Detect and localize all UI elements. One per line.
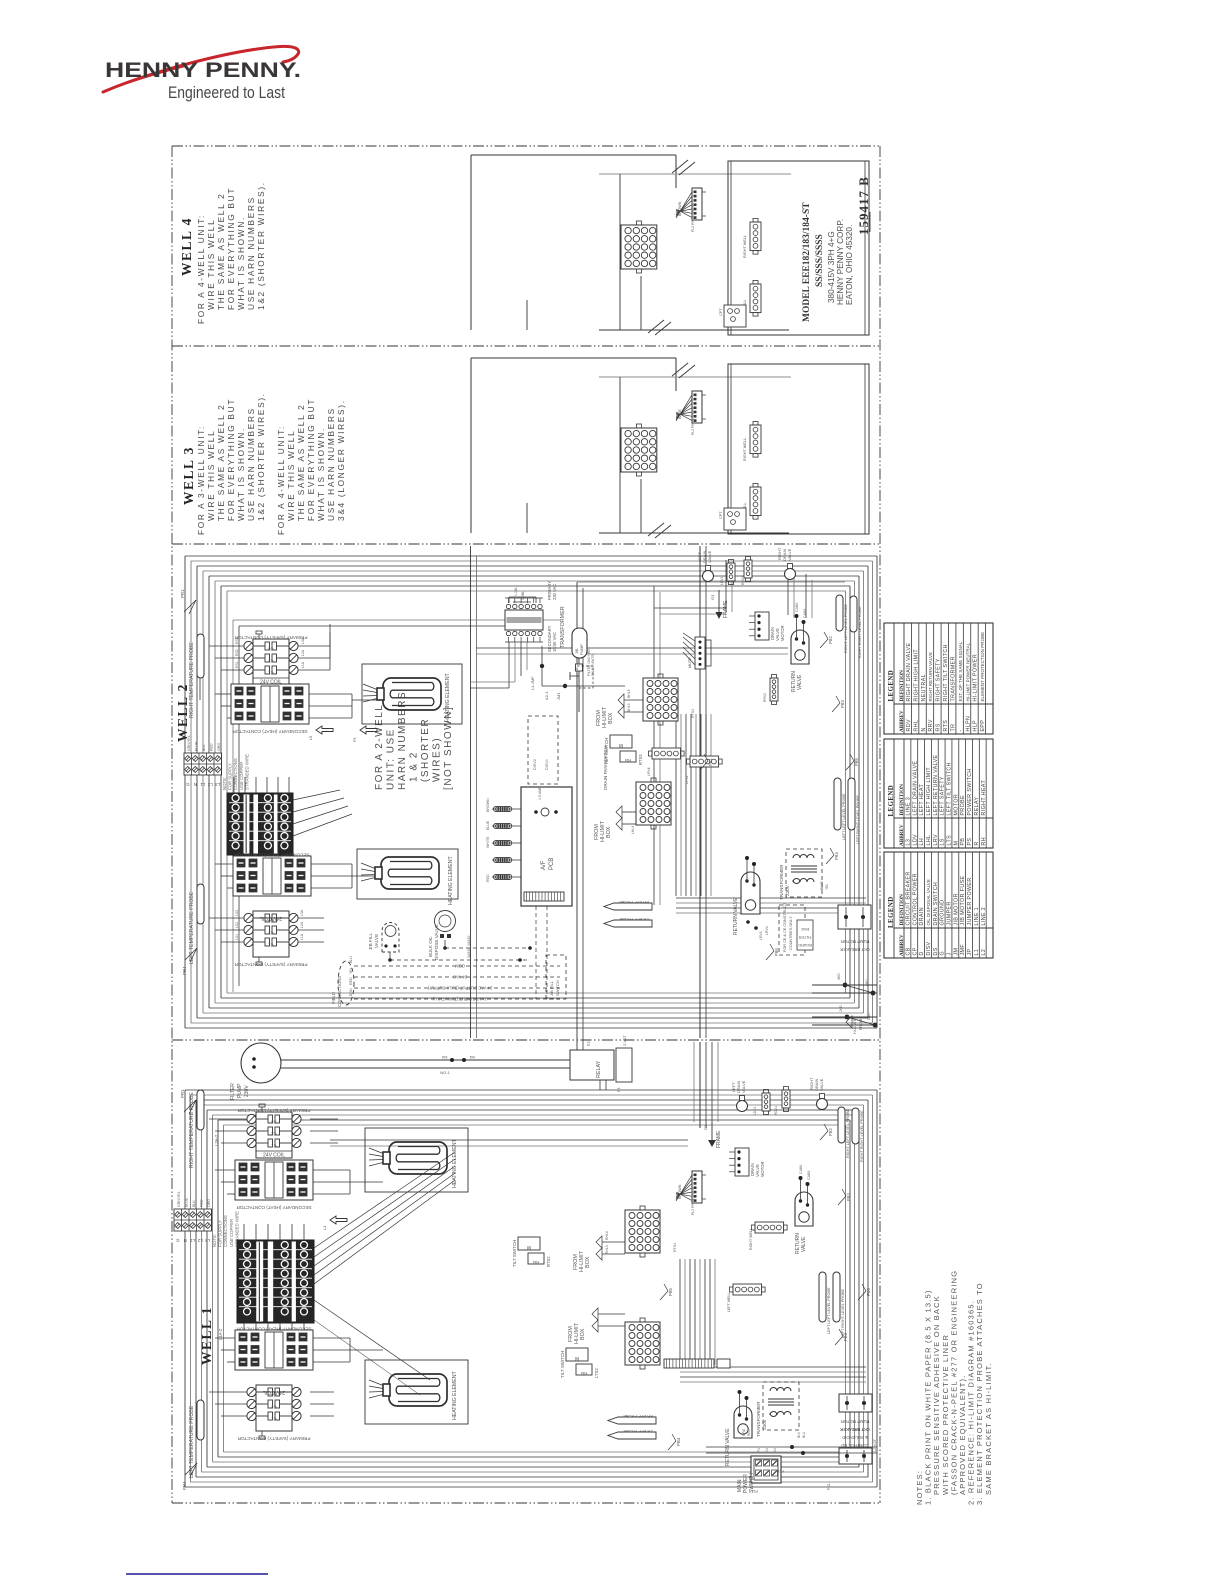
svg-text:L1A: L1A (300, 933, 304, 940)
svg-text:P86: P86 (866, 1288, 871, 1296)
svg-text:DISV1: DISV1 (545, 759, 549, 770)
probe PR1 right temperature probe WELL2 (197, 634, 204, 678)
svg-text:LHL4: LHL4 (631, 826, 635, 834)
svg-text:L3: L3 (215, 782, 220, 787)
svg-text:PL2 P/N:60.04.003: PL2 P/N:60.04.003 (691, 203, 695, 232)
heating element WELL2 left well (357, 849, 458, 899)
svg-text:DRAIN PAN SWITCH: DRAIN PAN SWITCH (603, 746, 608, 790)
svg-text:ABBREV: ABBREV (899, 710, 905, 732)
svg-text:6HD: 6HD (865, 979, 869, 986)
svg-text:CAB8: CAB8 (803, 609, 807, 618)
svg-text:COUNTRIES ONLY.: COUNTRIES ONLY. (789, 916, 793, 950)
svg-text:LH EPP PROBE: LH EPP PROBE (619, 917, 649, 922)
svg-text:GROUND: GROUND (940, 900, 946, 926)
pin connector right well WELL1 (755, 1222, 784, 1233)
svg-text:BLUE: BLUE (195, 741, 199, 751)
svg-text:FOR EVERYTHING BUT: FOR EVERYTHING BUT (226, 187, 236, 310)
svg-text:VALVE: VALVE (707, 550, 712, 563)
svg-text:1M: 1M (442, 1055, 448, 1060)
svg-text:N: N (921, 727, 927, 731)
svg-text:L3A: L3A (300, 909, 304, 916)
svg-text:RIGHT SAFETY: RIGHT SAFETY (936, 658, 942, 701)
svg-text:CONTROL POWER: CONTROL POWER (912, 873, 918, 925)
svg-text:SAME BRACKET AS HI-LIMIT.: SAME BRACKET AS HI-LIMIT. (984, 1362, 993, 1495)
contactor secondary heat WELL2 lower (233, 856, 311, 896)
svg-text:P82: P82 (828, 636, 833, 644)
svg-text:K1: K1 (765, 1448, 769, 1452)
svg-text:PS1: PS1 (827, 1483, 831, 1490)
svg-text:DISV: DISV (926, 941, 932, 955)
WELL2 ribbon elbow to right (676, 897, 866, 899)
svg-text:24 VAC INPUT (TANK FULL): 24 VAC INPUT (TANK FULL) (432, 997, 487, 1002)
RH EPP probe (604, 903, 652, 910)
svg-text:CPT: CPT (719, 308, 723, 316)
svg-text:TR: TR (950, 724, 956, 732)
svg-text:G: G (185, 782, 189, 787)
junction node A2-1 (540, 664, 544, 668)
svg-text:VALVE: VALVE (797, 674, 803, 690)
section divider WELL2/WELL1 (172, 1039, 880, 1041)
svg-text:FRAME: FRAME (723, 600, 729, 618)
svg-text:JUMPER: JUMPER (947, 901, 953, 925)
svg-text:RIGHT RIGHT LEVEL PROBE: RIGHT RIGHT LEVEL PROBE (860, 1110, 864, 1162)
jumper block arrows L5/F5 WELL2 (316, 726, 333, 734)
svg-text:LPN2: LPN2 (685, 775, 689, 784)
jib fill valve (dashed) (382, 923, 399, 953)
svg-text:FOR A 2-WELL: FOR A 2-WELL (374, 704, 385, 790)
svg-text:YEL: YEL (825, 883, 829, 890)
WELL4 connector CPT (724, 305, 746, 327)
svg-text:ORG: ORG (207, 1199, 211, 1207)
svg-text:G3: G3 (703, 1124, 708, 1130)
svg-text:PROBE: PROBE (960, 795, 966, 816)
svg-text:FIELD: FIELD (331, 992, 336, 1004)
svg-text:RDV1: RDV1 (741, 576, 745, 585)
svg-text:TRANSFORMER: TRANSFORMER (950, 656, 956, 701)
svg-text:WHITE: WHITE (486, 836, 490, 848)
svg-text:MODEL EEE182/183/184-ST: MODEL EEE182/183/184-ST (802, 202, 812, 322)
svg-text:LTS2: LTS2 (594, 1368, 599, 1378)
svg-text:FOR A 4-WELL UNIT:: FOR A 4-WELL UNIT: (276, 425, 286, 535)
svg-text:PR4: PR4 (182, 966, 187, 975)
svg-text:& SOLENOID: & SOLENOID (842, 1435, 868, 1440)
transformer 230V WELL1 (763, 1382, 799, 1430)
svg-text:D: D (919, 951, 925, 955)
svg-text:RED: RED (200, 1199, 204, 1207)
svg-text:FOR CE & CE CONSTRUCT: FOR CE & CE CONSTRUCT (783, 902, 787, 952)
svg-text:L2: L2 (197, 1238, 202, 1243)
svg-text:HLP: HLP (973, 720, 979, 732)
svg-text:CONNECTIONS: CONNECTIONS (233, 758, 238, 790)
svg-text:LEGEND: LEGEND (888, 785, 895, 817)
LH EPP probe (604, 920, 652, 927)
return valve WELL2 upper (791, 630, 809, 664)
svg-text:ORG: ORG (742, 1428, 746, 1436)
svg-text:BHL4: BHL4 (627, 689, 631, 698)
svg-text:L3: L3 (905, 839, 911, 846)
svg-text:RIGHT WELL: RIGHT WELL (749, 1228, 753, 1250)
PCB bottom edge connector (524, 892, 564, 901)
svg-text:USE HARN NUMBERS: USE HARN NUMBERS (246, 407, 256, 521)
WELL2 cluster feed drops (725, 560, 727, 612)
svg-text:C2: C2 (270, 1132, 276, 1137)
control bd solenoid breaker WELL1 (839, 1448, 872, 1464)
svg-text:PS1: PS1 (778, 1469, 784, 1473)
svg-text:RETURN VALVE: RETURN VALVE (733, 897, 739, 935)
svg-text:PUMP MOTOR: PUMP MOTOR (841, 939, 870, 944)
svg-text:LH EPP PROBE: LH EPP PROBE (623, 1429, 653, 1434)
svg-text:PL2 P/N:60.04.001: PL2 P/N:60.04.001 (691, 1186, 695, 1215)
WELL4 break mark bottom (648, 320, 664, 333)
footer blue rule (126, 1573, 268, 1575)
WELL1 ribbon elbow (680, 1366, 866, 1368)
svg-text:V1: V1 (773, 1448, 777, 1452)
WELL2 inner column feeders (470, 546, 472, 1038)
svg-text:PL2 P/N:60.04.002: PL2 P/N:60.04.002 (691, 406, 695, 435)
svg-text:LS1: LS1 (235, 934, 239, 940)
svg-text:BHL3: BHL3 (627, 703, 631, 712)
svg-text:RH EPP PROBE: RH EPP PROBE (619, 900, 649, 905)
svg-text:RDV: RDV (906, 719, 912, 731)
dashed jib wiring (390, 959, 530, 961)
svg-text:EATON, OHIO 45320.: EATON, OHIO 45320. (845, 225, 854, 305)
svg-text:RIGHT HIGH LIMIT: RIGHT HIGH LIMIT (913, 649, 919, 702)
svg-text:BLUE: BLUE (678, 409, 682, 419)
transformer TR4 24V WELL2 (505, 610, 543, 630)
WELL4 fan connector BROWN (692, 188, 702, 220)
svg-text:JMF: JMF (960, 944, 966, 956)
PCB fuse 1.5A (541, 808, 549, 816)
svg-text:BOX: BOX (608, 712, 614, 724)
svg-text:RELAY: RELAY (596, 1060, 602, 1078)
svg-text:C2: C2 (270, 1405, 276, 1410)
svg-text:DISV2: DISV2 (533, 759, 537, 770)
svg-text:A2-1: A2-1 (544, 691, 549, 700)
A/F PCB board WELL2 (521, 787, 572, 906)
svg-text:JIB: JIB (575, 648, 579, 654)
svg-text:GRN/YEL: GRN/YEL (177, 1191, 181, 1207)
legend table 1 (right abbreviations) (884, 623, 993, 734)
right drain valve WELL2 (785, 569, 796, 580)
pump motor circuit breaker CB WELL1 (839, 1394, 872, 1412)
svg-text:SS/SSS/SSSS: SS/SSS/SSSS (815, 234, 825, 287)
svg-text:PUMP: PUMP (237, 1083, 243, 1098)
svg-text:FRAME: FRAME (716, 1130, 722, 1148)
svg-text:LEFT TILT SWITCH: LEFT TILT SWITCH (947, 762, 953, 815)
connector grid RTS WELL2 (643, 678, 678, 721)
svg-text:HI-LIMIT POWER: HI-LIMIT POWER (973, 654, 979, 702)
contactor secondary heat WELL1 lower (235, 1330, 313, 1370)
svg-text:PR1: PR1 (180, 589, 185, 598)
svg-text:FOR A 4-WELL UNIT:: FOR A 4-WELL UNIT: (196, 214, 206, 324)
svg-text:WIRE THIS WELL: WIRE THIS WELL (206, 219, 216, 310)
svg-text:RED: RED (349, 977, 353, 985)
svg-text:LEGEND: LEGEND (888, 896, 895, 928)
svg-text:RIGHT LEFT LEVEL PROBE: RIGHT LEFT LEVEL PROBE (846, 1108, 850, 1158)
connector grid WELL1 upper (625, 1210, 660, 1253)
svg-text:RTS2: RTS2 (546, 1256, 551, 1267)
svg-text:RH EPP PROBE: RH EPP PROBE (623, 1414, 653, 1419)
svg-text:L3: L3 (205, 1238, 210, 1243)
WELL3 break mark top (672, 363, 688, 376)
svg-text:BRN: BRN (349, 988, 353, 996)
svg-text:VALVE: VALVE (819, 1078, 824, 1091)
svg-text:HEATING ELEMENT: HEATING ELEMENT (452, 1371, 458, 1420)
WELL4 wire from connector to box (640, 276, 642, 330)
svg-text:RIGHT WELL: RIGHT WELL (743, 235, 747, 258)
svg-text:FOR SUPPLY: FOR SUPPLY (218, 1220, 223, 1247)
svg-text:L2: L2 (207, 782, 212, 787)
WELL3 break mark bottom (648, 523, 664, 536)
svg-text:LEFT WELL: LEFT WELL (727, 1292, 731, 1312)
svg-text:LTS: LTS (947, 835, 953, 846)
svg-text:RS2: RS2 (235, 649, 239, 656)
WELL4 main harness connector PL1 (621, 225, 657, 269)
svg-text:RED: RED (486, 874, 490, 882)
svg-text:RTS: RTS (943, 720, 949, 732)
svg-text:LEFT HIGH LIMIT: LEFT HIGH LIMIT (926, 767, 932, 816)
svg-text:USE COPPER: USE COPPER (229, 1219, 234, 1247)
svg-text:FROM: FROM (859, 1019, 863, 1030)
return valve WELL2 lower (741, 872, 760, 914)
svg-text:WIRE THIS WELL: WIRE THIS WELL (206, 430, 216, 521)
svg-text:R1: R1 (617, 1087, 621, 1092)
contactor primary safety WELL1 lower (256, 1385, 292, 1431)
svg-text:LDV1: LDV1 (720, 576, 724, 585)
svg-text:RIGHT RIGHT LEVEL PROBE: RIGHT RIGHT LEVEL PROBE (858, 606, 862, 658)
svg-text:LEFT LEFT LEVEL PROBE: LEFT LEFT LEVEL PROBE (827, 1287, 831, 1334)
terminal block stub wires WELL1 (243, 1224, 245, 1240)
svg-text:L1-JMF: L1-JMF (530, 676, 535, 690)
terminal block stub wires WELL2 (233, 777, 235, 793)
svg-text:R2: R2 (587, 1041, 591, 1046)
svg-text:UNIT: USE: UNIT: USE (386, 728, 397, 790)
svg-text:FOR EVERYTHING BUT: FOR EVERYTHING BUT (306, 398, 316, 521)
connector grid WELL1 lower (625, 1322, 660, 1365)
svg-text:ELEMENT PROTECTION PROBE: ELEMENT PROTECTION PROBE (980, 632, 985, 702)
svg-text:JUMPER POWER: JUMPER POWER (967, 877, 973, 925)
svg-text:DEFINITION: DEFINITION (899, 894, 905, 926)
svg-text:LEFT RIGHT LEVEL PROBE: LEFT RIGHT LEVEL PROBE (856, 794, 860, 844)
svg-text:C1: C1 (270, 1144, 276, 1149)
svg-text:RDV1: RDV1 (774, 1106, 778, 1115)
svg-text:WHAT IS SHOWN.: WHAT IS SHOWN. (316, 427, 326, 521)
svg-text:A/F: A/F (541, 860, 547, 870)
svg-text:LEFT RETURN VALVE: LEFT RETURN VALVE (933, 754, 939, 815)
svg-text:USE COPPER: USE COPPER (239, 762, 244, 790)
svg-text:1-1BL: 1-1BL (514, 587, 518, 596)
level probes left pair WELL2 (834, 778, 841, 830)
svg-text:LEFT TEMPERATURE PROBE: LEFT TEMPERATURE PROBE (189, 1405, 195, 1478)
svg-text:LINE 3: LINE 3 (905, 797, 911, 816)
svg-text:LDV1: LDV1 (753, 1106, 757, 1115)
svg-text:NOTE:: NOTE: (222, 777, 227, 790)
svg-text:1 & 2: 1 & 2 (409, 751, 420, 782)
tilt switch WELL1 lower (566, 1348, 588, 1361)
svg-text:16/36 VAC: 16/36 VAC (552, 632, 557, 652)
svg-text:LS2: LS2 (235, 922, 239, 928)
svg-text:G: G (940, 951, 946, 956)
svg-text:VALVE: VALVE (374, 934, 379, 948)
svg-text:VALVE: VALVE (787, 548, 792, 561)
probe left temperature WELL1 (197, 1400, 204, 1440)
svg-text:LHL: LHL (926, 835, 932, 846)
svg-text:GRN/YEL: GRN/YEL (187, 735, 191, 751)
svg-text:PB: PB (960, 838, 966, 846)
svg-text:LEFT DRAIN VALVE: LEFT DRAIN VALVE (912, 760, 918, 815)
svg-text:USE HARN NUMBERS: USE HARN NUMBERS (326, 407, 336, 521)
svg-text:DEFINITION: DEFINITION (899, 670, 905, 702)
WELL3 main harness connector PL1 (621, 428, 657, 472)
svg-text:WELL 4: WELL 4 (179, 217, 194, 276)
svg-text:CP: CP (912, 947, 918, 955)
svg-text:BLUE: BLUE (820, 880, 824, 890)
WELL3 gray feed line (599, 376, 791, 378)
drain valve pin connectors WELL1 (762, 1093, 770, 1111)
svg-text:PR4: PR4 (182, 1481, 187, 1490)
svg-text:380-415V 3PH 4+G: 380-415V 3PH 4+G (827, 231, 836, 303)
PCB relay coils (493, 806, 498, 811)
svg-text:P83: P83 (840, 700, 845, 708)
fan connector WELL1 (692, 1171, 702, 1203)
svg-text:P83: P83 (846, 1193, 851, 1201)
contactor stub wires WELL2 lower (215, 863, 233, 865)
svg-text:DS: DS (933, 947, 939, 955)
WELL3 fan connector BLUE (692, 391, 702, 423)
WELL1 harness wire loop bundle (185, 1089, 877, 1091)
pump motor breaker WELL2 (838, 905, 871, 929)
svg-text:L1: L1 (200, 782, 205, 787)
contactor secondary heat WELL2 upper (231, 684, 309, 724)
svg-text:BLU: BLU (349, 956, 353, 963)
svg-text:MOTOR: MOTOR (760, 1161, 765, 1177)
svg-text:JIB MOTOR: JIB MOTOR (953, 893, 959, 925)
legend table 2 (left abbreviations) (884, 739, 993, 848)
svg-text:DRAIN: DRAIN (919, 907, 925, 925)
MUTE connector strip (695, 637, 705, 669)
svg-text:L3A-2: L3A-2 (214, 1134, 219, 1146)
DISV dashed control box (528, 716, 558, 784)
svg-text:TRANSFORMER: TRANSFORMER (560, 606, 566, 648)
svg-text:HI-LIMIT: HI-LIMIT (853, 1019, 857, 1034)
svg-text:P82: P82 (828, 1128, 833, 1136)
svg-text:LEFT RIGHT LEVEL PROBE: LEFT RIGHT LEVEL PROBE (841, 1288, 845, 1338)
svg-text:RHL4: RHL4 (605, 1231, 609, 1240)
svg-text:L2A: L2A (301, 649, 305, 656)
filter pump motor WELL1 (241, 1043, 281, 1083)
heating element WELL1 right well (365, 1128, 468, 1192)
svg-text:PUMP: PUMP (580, 644, 584, 655)
svg-text:4HD: 4HD (837, 973, 841, 980)
connector RRV WELL2 (770, 678, 778, 701)
relay R WELL1 (570, 1050, 614, 1080)
svg-text:POWER SWITCH: POWER SWITCH (967, 768, 973, 815)
level probes right pair WELL2 (836, 595, 843, 631)
svg-text:DRAIN SWITCH: DRAIN SWITCH (933, 882, 939, 926)
svg-text:MOTOR: MOTOR (953, 794, 959, 816)
svg-text:L2-V2T: L2-V2T (872, 1438, 877, 1452)
svg-text:RB: RB (581, 1371, 587, 1376)
svg-text:P86: P86 (774, 948, 779, 956)
svg-text:SECONDARY (HEAT) CONTACTOR: SECONDARY (HEAT) CONTACTOR (236, 1327, 312, 1332)
svg-text:1A810: 1A810 (467, 936, 471, 946)
svg-text:RIGHT RETURN VALVE: RIGHT RETURN VALVE (928, 652, 933, 702)
svg-text:SECONDARY (HEAT) CONTACTOR: SECONDARY (HEAT) CONTACTOR (234, 853, 310, 858)
WELL1 mid vertical ribbon (679, 1259, 681, 1365)
svg-text:EMC: EMC (801, 927, 810, 931)
svg-text:M1: M1 (468, 1055, 474, 1060)
svg-text:C1: C1 (267, 943, 273, 948)
svg-text:YEL: YEL (349, 967, 353, 974)
contactor secondary heat WELL1 upper (235, 1160, 313, 1200)
svg-text:NEUTRAL: NEUTRAL (921, 674, 927, 702)
contactor stub wires WELL1 lower (215, 1337, 235, 1339)
svg-text:1&2 (SHORTER WIRES).: 1&2 (SHORTER WIRES). (256, 392, 266, 521)
svg-text:THE SAME AS WELL 2: THE SAME AS WELL 2 (216, 404, 226, 521)
WELL3 harness box (471, 357, 676, 359)
svg-text:C1: C1 (267, 671, 273, 676)
svg-text:RED: RED (210, 743, 214, 751)
svg-text:CAB8: CAB8 (807, 1171, 811, 1180)
WELL2 inner feed rect left (232, 620, 234, 992)
ground frame G3 WELL2 (718, 590, 720, 612)
svg-text:1.5 AMP: 1.5 AMP (538, 786, 542, 800)
small connectors LPN (652, 748, 681, 759)
svg-text:VALVE: VALVE (741, 1080, 746, 1093)
svg-text:CIRCUIT BREAKER: CIRCUIT BREAKER (905, 871, 911, 925)
svg-text:G: G (175, 1238, 179, 1243)
svg-text:Engineered to Last: Engineered to Last (168, 84, 285, 102)
svg-text:BULK OIL: BULK OIL (428, 936, 433, 957)
svg-text:PS: PS (967, 838, 973, 846)
svg-text:OIL DISPOSAL VALVE: OIL DISPOSAL VALVE (926, 879, 931, 925)
svg-text:CKT BREAKER: CKT BREAKER (840, 1427, 869, 1432)
svg-text:P84: P84 (834, 852, 839, 860)
svg-text:COM: COM (455, 964, 465, 969)
svg-text:LRV2: LRV2 (765, 926, 769, 935)
svg-text:G3: G3 (710, 594, 715, 600)
transformer secondary wires down (508, 642, 510, 688)
svg-text:1&2 (SHORTER WIRES).: 1&2 (SHORTER WIRES). (256, 181, 266, 310)
svg-text:CPT: CPT (719, 511, 723, 519)
svg-text:RH: RH (981, 837, 987, 845)
svg-text:BLUE: BLUE (486, 820, 490, 830)
WELL4 connector LEFT WELL (750, 284, 761, 313)
svg-text:230V: 230V (762, 1418, 767, 1430)
WELL4 harness box (471, 154, 676, 156)
svg-text:JP: JP (967, 948, 973, 955)
WELL3 connector RIGHT WELL (750, 425, 761, 454)
svg-text:JIB MOTOR FUSE: JIB MOTOR FUSE (960, 875, 966, 925)
pin connector left well WELL1 (733, 1284, 762, 1295)
svg-text:LDV: LDV (912, 834, 918, 846)
svg-text:NO-1: NO-1 (440, 1070, 450, 1075)
svg-text:CONNECTIONS: CONNECTIONS (223, 1215, 228, 1247)
svg-text:24V COIL: 24V COIL (263, 1153, 285, 1159)
svg-text:M: M (575, 1355, 579, 1361)
relay feeder pair crossing bands (576, 582, 578, 1050)
section divider WELL3/WELL2 (172, 543, 880, 545)
svg-text:M: M (619, 742, 623, 748)
svg-text:ABBREV: ABBREV (899, 934, 905, 956)
svg-text:EXT. OF THE SAME SIGNAL: EXT. OF THE SAME SIGNAL (958, 641, 963, 701)
heating element WELL1 left well (365, 1360, 468, 1424)
svg-text:BOX: BOX (580, 1328, 586, 1340)
svg-text:8HD: 8HD (867, 1013, 871, 1020)
svg-text:HENNY PENNY CORP.: HENNY PENNY CORP. (836, 219, 845, 305)
svg-text:TILT SWITCH: TILT SWITCH (512, 1240, 517, 1267)
right drain valve WELL1 (817, 1099, 828, 1110)
